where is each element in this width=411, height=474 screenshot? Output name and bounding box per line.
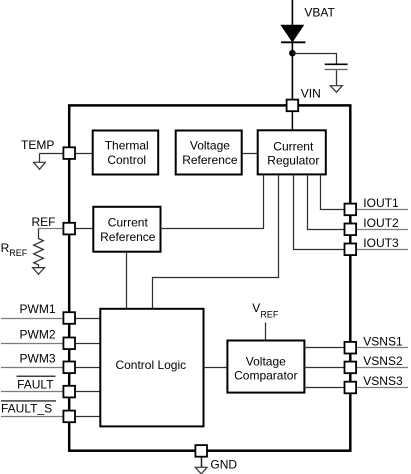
wire REF label to pin [39,228,64,230]
label FAULT (active low) [17,376,56,391]
svg-text:TEMP: TEMP [21,138,54,152]
wire Current Reference to Current Regulator [161,174,264,228]
svg-text:VSNS2: VSNS2 [363,354,403,368]
ground arrow at TEMP [34,162,46,169]
wire VSNS2 external [356,367,408,369]
pin FAULT [63,386,75,398]
block U6 Voltage Comparator [227,341,304,393]
pin PWM2 [63,338,75,350]
wire FAULT label side [1,391,63,393]
wire PWM2 label side [1,343,63,345]
svg-text:Control Logic: Control Logic [115,358,186,372]
wire FAULT_S label side [1,416,63,418]
wire FAULT_S pin to Control Logic [75,416,100,418]
wire TEMP label to pin [40,153,64,155]
wire Voltage Reference to Current Regulator [242,153,258,155]
pin VIN [287,100,299,112]
wire VSNS3 external [356,387,408,389]
wire PWM3 pin to Control Logic [75,367,100,369]
label FAULT_S (active low) [1,401,56,416]
ground arrow below capacitor [330,86,342,93]
svg-text:Reference: Reference [100,230,156,244]
block U2 Voltage Reference [176,131,242,175]
block U1 Thermal Control [93,131,159,175]
pin VSNS2 [345,362,357,374]
svg-text:GND: GND [210,458,237,472]
svg-text:VIN: VIN [301,86,321,100]
block U4 Current Reference [93,207,160,252]
pin IOUT2 [345,224,357,236]
svg-text:VSNS3: VSNS3 [363,374,403,388]
pin IOUT1 [345,204,357,216]
svg-text:PWM2: PWM2 [20,327,56,341]
wire Current Regulator to IOUT2 [308,174,345,229]
junction node at VIN branch [289,50,296,57]
wire PWM1 label side [1,318,63,320]
svg-text:Regulator: Regulator [267,153,319,167]
ground arrow at GND [195,467,207,474]
wire REF to resistor [38,229,40,240]
svg-text:PWM1: PWM1 [20,302,56,316]
pin PWM3 [63,362,75,374]
wire capacitor to ground arrow [336,70,338,86]
main block outline [69,105,350,450]
svg-text:Voltage: Voltage [246,354,286,368]
svg-text:Reference: Reference [182,153,238,167]
wire PWM3 label side [1,367,63,369]
wire TEMP pin to Thermal Control [75,153,93,155]
wire Control Logic to Voltage Comparator [204,367,228,369]
svg-text:FAULT_S: FAULT_S [1,401,52,415]
svg-text:Thermal: Thermal [105,139,149,153]
svg-text:IOUT2: IOUT2 [363,216,399,230]
wire Voltage Comparator to VSNS1 [304,347,344,349]
wire Current Reference to Control Logic [126,252,128,309]
pin PWM1 [63,312,75,324]
wire VREF to Voltage Comparator [265,323,267,341]
wire IOUT1 external [356,209,408,211]
pin FAULT_S [63,411,75,423]
svg-text:VBAT: VBAT [304,5,335,19]
wire Current Regulator to IOUT1 [321,174,345,209]
wire junction to capacitor [292,54,336,64]
svg-text:REF: REF [32,215,56,229]
wire PWM1 pin to Control Logic [75,318,100,320]
svg-text:Voltage: Voltage [190,139,230,153]
capacitor C1 (input bypass) [325,64,348,69]
svg-text:IOUT1: IOUT1 [363,196,399,210]
svg-text:Current: Current [108,216,149,230]
wire VIN pin to Current Regulator [291,111,293,130]
wire Voltage Comparator to VSNS3 [304,387,344,389]
ground arrow at RREF [33,268,45,275]
resistor RREF [34,239,44,268]
wire Current Regulator to Control Logic [153,174,279,308]
svg-text:Control: Control [107,153,146,167]
diode D1 (reverse protection) [281,25,305,42]
wire PWM2 pin to Control Logic [75,343,100,345]
pin REF [63,223,75,235]
wire IOUT3 external [356,249,408,251]
wire VBAT vertical into diode [291,0,293,26]
wire Current Regulator to IOUT3 [294,174,345,249]
wire GND pin to ground arrow [201,457,203,468]
block U5 Control Logic [100,309,203,427]
svg-text:Current: Current [273,139,314,153]
pin IOUT3 [345,244,357,256]
wire TEMP ground stub [39,154,41,163]
pin TEMP [63,147,75,159]
wire VSNS1 external [356,347,408,349]
wire IOUT2 external [356,229,408,231]
svg-text:FAULT: FAULT [17,377,54,391]
svg-text:VSNS1: VSNS1 [363,334,403,348]
svg-text:IOUT3: IOUT3 [363,236,399,250]
pin VSNS1 [345,342,357,354]
pin VSNS3 [345,382,357,394]
svg-text:Comparator: Comparator [234,368,297,382]
wire Voltage Comparator to VSNS2 [304,367,344,369]
wire REF pin to Current Reference [75,228,93,230]
wire diode to VIN pin [291,42,293,99]
block U3 Current Regulator [258,130,326,174]
wire FAULT pin to Control Logic [75,391,100,393]
svg-text:PWM3: PWM3 [20,351,56,365]
pin GND [195,445,207,457]
